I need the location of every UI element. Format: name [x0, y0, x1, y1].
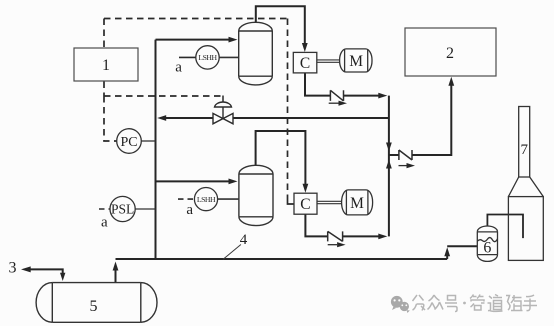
svg-text:a: a	[101, 215, 108, 231]
svg-text:5: 5	[90, 298, 98, 315]
svg-text:M: M	[350, 195, 364, 212]
svg-text:PC: PC	[120, 135, 137, 150]
svg-text:4: 4	[240, 232, 248, 248]
svg-text:7: 7	[520, 142, 528, 158]
svg-text:2: 2	[446, 45, 454, 62]
svg-text:6: 6	[483, 240, 491, 257]
svg-text:PSL: PSL	[111, 202, 134, 217]
svg-text:LSHH: LSHH	[198, 53, 217, 62]
svg-text:1: 1	[102, 57, 110, 74]
svg-text:C: C	[300, 55, 310, 72]
svg-text:3: 3	[9, 260, 17, 277]
svg-text:C: C	[300, 196, 310, 213]
svg-text:LSHH: LSHH	[197, 195, 216, 204]
svg-text:M: M	[349, 53, 363, 70]
svg-text:a: a	[186, 202, 193, 218]
svg-text:a: a	[175, 60, 182, 76]
